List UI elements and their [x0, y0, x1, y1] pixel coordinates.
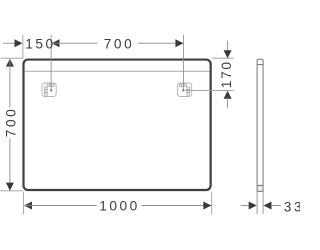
bracket B1 center dot [50, 89, 52, 91]
top dim 700 right arrow (points right) [175, 39, 183, 47]
bracket B1 outline [42, 83, 56, 97]
left dim 700 down arrow [6, 183, 14, 191]
side view top inner line [257, 64, 263, 66]
svg-text:33: 33 [284, 199, 300, 214]
extension line bracket B1 (down to dot) [50, 35, 52, 90]
bottom dim 1000 right arrow (points right) [203, 202, 211, 210]
left dim 700 line upper segment [9, 59, 11, 108]
left dim 700 up arrow [6, 59, 14, 67]
top dim 150 outside arrow (points right) [15, 39, 23, 47]
left dim 700 line lower segment [9, 138, 11, 190]
svg-text:1000: 1000 [99, 199, 140, 214]
side view left edge [257, 59, 258, 191]
extension line top-left (mirror left edge up) [22, 35, 24, 59]
33 dim right arrow (points left) [264, 202, 272, 210]
bracket B2 center dot [182, 89, 184, 91]
bottom dim 1000 line left segment [24, 205, 97, 207]
bracket B2 side slots [187, 87, 190, 95]
right dim 170 down arrow [224, 50, 232, 58]
33 dim extension left (side view edge extended) [256, 191, 258, 214]
top dim 700 left arrow (points left) [52, 39, 60, 47]
light strip line [25, 70, 210, 72]
right dim 170 up arrow [224, 91, 232, 99]
side view bracket detail [259, 187, 262, 191]
svg-text:700: 700 [3, 107, 18, 138]
bottom dim 1000 left arrow (points left) [24, 202, 32, 210]
bottom dim 1000 extension right [211, 192, 213, 215]
left dim 700 extension bottom [1, 190, 24, 192]
top dim 700 line right segment [138, 42, 183, 44]
side view bottom line [257, 190, 263, 192]
bracket B2 outline [178, 83, 192, 97]
33 dim right tail [271, 205, 281, 207]
bracket B2 top slot [179, 84, 186, 86]
left dim 700 extension top [1, 57, 24, 59]
bottom dim 1000 extension left [23, 192, 25, 215]
svg-text:700: 700 [104, 37, 135, 52]
top dim 700 line left segment [52, 42, 98, 44]
svg-text:150: 150 [25, 37, 56, 52]
right dim 170 extension bottom (from bracket dot) [185, 90, 234, 92]
side view right edge [258, 59, 263, 191]
bracket B1 top slot [47, 84, 54, 86]
33 dim extension right (side view edge extended) [262, 191, 264, 214]
right dim 170 bottom tail [227, 97, 229, 108]
bottom dim 1000 line right segment [142, 205, 212, 207]
side view lower band line [257, 184, 263, 186]
top dim 150 tail [3, 42, 15, 44]
bracket B1 side slots [44, 87, 47, 95]
right dim 170 top tail [227, 41, 229, 52]
extension line bracket B2 (down to dot) [183, 35, 185, 90]
mirror front view outline [24, 60, 211, 190]
33 dim left tail [241, 205, 250, 207]
33 dim left arrow (points right) [249, 202, 257, 210]
svg-text:170: 170 [219, 60, 234, 88]
right dim 170 extension top (from mirror corner) [212, 57, 234, 59]
